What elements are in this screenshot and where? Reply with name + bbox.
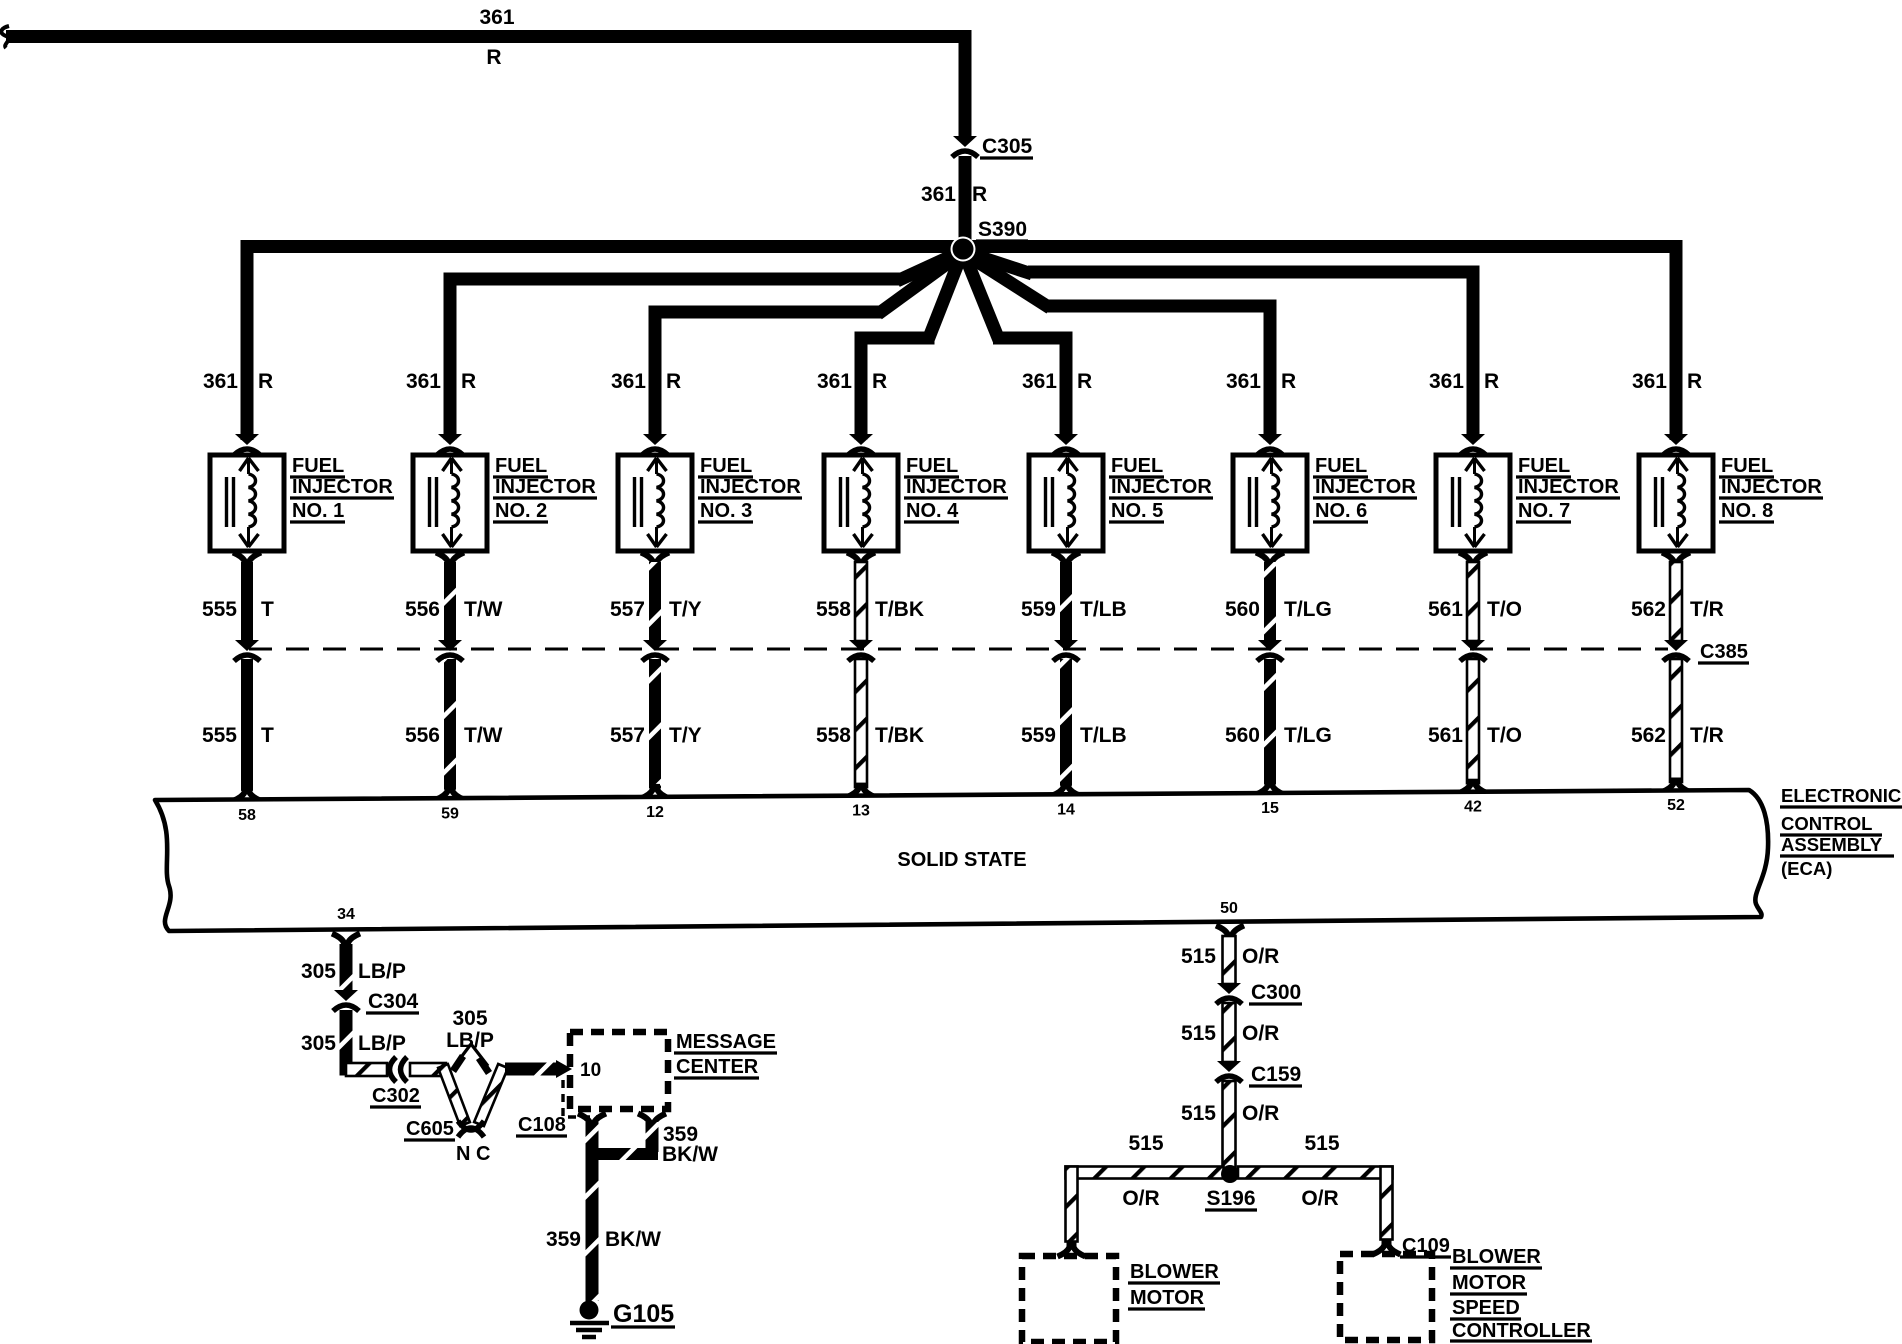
connector at top of fuel injector no. 8: [1663, 434, 1689, 455]
svg-text:58: 58: [238, 807, 256, 824]
wire 361 branch to injector 4: [855, 256, 962, 440]
svg-text:FUEL: FUEL: [1315, 455, 1367, 477]
fuel injector no. 3: [618, 455, 692, 551]
connector C385 pin for wire 562: [1663, 640, 1689, 661]
svg-text:FUEL: FUEL: [1721, 455, 1773, 477]
svg-text:NO. 8: NO. 8: [1721, 500, 1773, 522]
svg-text:FUEL: FUEL: [292, 455, 344, 477]
fishtail connector below fuel injector no. 1: [233, 553, 261, 568]
ECA pin 14: [1057, 801, 1075, 818]
svg-text:562: 562: [1631, 598, 1666, 621]
connector C109: [1373, 1235, 1452, 1257]
ECA pin 58: [238, 807, 256, 824]
wire 559 T/LB upper segment: [1021, 562, 1127, 641]
svg-text:CENTER: CENTER: [676, 1056, 759, 1078]
wire 558 T/BK lower segment to ECA pin 13: [816, 659, 924, 797]
svg-text:NO. 7: NO. 7: [1518, 500, 1570, 522]
connector C385 pin for wire 560: [1257, 640, 1283, 661]
wire 562 T/R lower segment to ECA pin 52: [1631, 659, 1724, 792]
svg-text:515: 515: [1181, 945, 1216, 968]
label FUEL INJECTOR NO. 1: [290, 455, 394, 522]
wire 361 R between C305 and S390: [921, 156, 987, 241]
svg-text:T: T: [261, 598, 274, 621]
label 305 LB/P pointer: [446, 1007, 494, 1075]
connector C159: [1216, 1061, 1302, 1086]
svg-text:FUEL: FUEL: [700, 455, 752, 477]
svg-text:T/LB: T/LB: [1080, 724, 1127, 747]
svg-text:12: 12: [646, 804, 664, 821]
fuel injector no. 5: [1029, 455, 1103, 551]
wire 515 O/R from C159 to splice S196: [1181, 1081, 1279, 1168]
fishtail connector below fuel injector no. 8: [1662, 553, 1690, 568]
connector C385 pin for wire 556: [437, 640, 463, 661]
wire 305 horizontal run to C302: [346, 1063, 387, 1076]
fishtail connector below fuel injector no. 2: [436, 553, 464, 568]
svg-text:INJECTOR: INJECTOR: [292, 476, 393, 498]
message center box: [570, 1032, 668, 1109]
label 361 R branch wire injector 6: [1226, 370, 1296, 393]
connector C385 pin for wire 557: [642, 640, 668, 661]
svg-text:515: 515: [1181, 1102, 1216, 1125]
svg-text:MOTOR: MOTOR: [1130, 1287, 1205, 1309]
ECA pin 12: [646, 804, 664, 821]
svg-text:T/LG: T/LG: [1284, 598, 1332, 621]
svg-text:O/R: O/R: [1242, 1022, 1279, 1045]
blower motor box: [1022, 1256, 1116, 1342]
connector C302: [370, 1057, 421, 1107]
svg-text:305: 305: [301, 960, 336, 983]
svg-text:T/Y: T/Y: [669, 598, 702, 621]
svg-text:361: 361: [611, 370, 646, 393]
svg-text:361: 361: [817, 370, 852, 393]
wire 557 T/Y lower segment to ECA pin 12: [610, 659, 702, 798]
svg-text:C159: C159: [1251, 1063, 1301, 1086]
svg-text:FUEL: FUEL: [1111, 455, 1163, 477]
label FUEL INJECTOR NO. 8: [1719, 455, 1823, 522]
svg-text:R: R: [1077, 370, 1092, 393]
svg-text:S196: S196: [1206, 1187, 1255, 1210]
svg-text:C305: C305: [982, 135, 1033, 158]
svg-text:359: 359: [546, 1228, 581, 1251]
svg-text:C300: C300: [1251, 981, 1301, 1004]
wire 558 T/BK upper segment: [816, 562, 924, 641]
fishtail connector below fuel injector no. 5: [1052, 553, 1080, 568]
svg-text:34: 34: [337, 906, 355, 923]
wire 515 O/R horizontal to blower motor: [1066, 1132, 1224, 1242]
svg-text:CONTROL: CONTROL: [1781, 813, 1872, 834]
connector C304: [333, 990, 419, 1013]
connector C385 pin for wire 561: [1460, 640, 1486, 661]
svg-text:557: 557: [610, 598, 645, 621]
svg-text:BLOWER: BLOWER: [1452, 1246, 1541, 1268]
fuel injector no. 7: [1436, 455, 1510, 551]
svg-text:C385: C385: [1700, 641, 1748, 663]
svg-text:LB/P: LB/P: [358, 1032, 406, 1055]
svg-text:FUEL: FUEL: [906, 455, 958, 477]
wire 556 T/W upper segment: [405, 562, 503, 641]
label 361 R branch wire injector 4: [817, 370, 887, 393]
svg-text:LB/P: LB/P: [358, 960, 406, 983]
svg-text:T/R: T/R: [1690, 598, 1724, 621]
svg-text:557: 557: [610, 724, 645, 747]
svg-text:15: 15: [1261, 800, 1279, 817]
svg-text:FUEL: FUEL: [1518, 455, 1570, 477]
svg-text:515: 515: [1304, 1132, 1339, 1155]
wire 361 feed from left (R): [1, 26, 971, 137]
fishtail connector below fuel injector no. 6: [1256, 553, 1284, 568]
svg-text:560: 560: [1225, 598, 1260, 621]
wire 361 branch to injector 6: [967, 255, 1277, 440]
svg-text:C302: C302: [372, 1085, 420, 1107]
svg-text:560: 560: [1225, 724, 1260, 747]
svg-text:R: R: [666, 370, 681, 393]
wire 561 T/O lower segment to ECA pin 42: [1428, 659, 1522, 793]
fuel injector no. 8: [1639, 455, 1713, 551]
connector at top of fuel injector no. 5: [1053, 434, 1079, 455]
electronic control assembly (ECA) box: [155, 790, 1768, 931]
wire 359 BK/W to ground G105: [546, 1122, 661, 1301]
svg-text:INJECTOR: INJECTOR: [1518, 476, 1619, 498]
svg-text:ASSEMBLY: ASSEMBLY: [1781, 834, 1883, 855]
wire 305 loop right leg: [474, 1064, 508, 1126]
svg-text:558: 558: [816, 598, 851, 621]
svg-text:BLOWER: BLOWER: [1130, 1261, 1219, 1283]
svg-text:T/BK: T/BK: [875, 724, 924, 747]
wire 305 from C302 to loop: [410, 1063, 446, 1076]
ECA pin 42: [1464, 798, 1482, 815]
fishtail at message center left pin: [578, 1114, 606, 1129]
svg-text:361: 361: [479, 6, 514, 29]
svg-text:FUEL: FUEL: [495, 455, 547, 477]
svg-text:C108: C108: [518, 1114, 566, 1136]
svg-text:361: 361: [921, 183, 956, 206]
connector C385 pin for wire 558: [848, 640, 874, 661]
fuel injector no. 1: [210, 455, 284, 551]
svg-text:515: 515: [1128, 1132, 1163, 1155]
ECA pin 59: [441, 806, 459, 823]
wire 559 T/LB lower segment to ECA pin 14: [1021, 659, 1127, 796]
fishtail connector below fuel injector no. 7: [1459, 553, 1487, 568]
fuel injector no. 2: [413, 455, 487, 551]
svg-text:LB/P: LB/P: [446, 1029, 494, 1052]
label 361 R branch wire injector 8: [1632, 370, 1702, 393]
svg-text:O/R: O/R: [1242, 1102, 1279, 1125]
svg-text:O/R: O/R: [1301, 1187, 1338, 1210]
ECA pin 13: [852, 803, 870, 820]
wire 562 T/R upper segment: [1631, 562, 1724, 641]
wire 555 T lower segment to ECA pin 58: [202, 659, 274, 801]
wire 305 LB/P from C304 to elbow: [301, 1010, 406, 1076]
svg-text:NO. 6: NO. 6: [1315, 500, 1367, 522]
svg-text:T: T: [261, 724, 274, 747]
fishtail connector below fuel injector no. 3: [641, 553, 669, 568]
connector C108 dashed boundary: [516, 1080, 601, 1136]
svg-text:SOLID STATE: SOLID STATE: [897, 849, 1026, 871]
svg-text:NO. 4: NO. 4: [906, 500, 959, 522]
svg-text:361: 361: [1632, 370, 1667, 393]
svg-text:T/LG: T/LG: [1284, 724, 1332, 747]
svg-text:MESSAGE: MESSAGE: [676, 1031, 776, 1053]
fuel injector no. 6: [1233, 455, 1307, 551]
connector at top of fuel injector no. 3: [642, 434, 668, 455]
svg-text:361: 361: [1226, 370, 1261, 393]
svg-text:ELECTRONIC: ELECTRONIC: [1781, 785, 1901, 806]
svg-text:NO. 5: NO. 5: [1111, 500, 1163, 522]
svg-text:13: 13: [852, 803, 870, 820]
connector at top of fuel injector no. 2: [437, 434, 463, 455]
connector at top of fuel injector no. 6: [1257, 434, 1283, 455]
svg-text:R: R: [1484, 370, 1499, 393]
svg-text:305: 305: [301, 1032, 336, 1055]
connector C300: [1216, 981, 1302, 1004]
svg-text:CONTROLLER: CONTROLLER: [1452, 1320, 1591, 1342]
wire 361 branch to injector 3: [649, 255, 960, 440]
label 361 on top feed wire: [479, 6, 514, 69]
svg-text:NO. 2: NO. 2: [495, 500, 547, 522]
connector at top of fuel injector no. 1: [234, 434, 260, 455]
blower motor speed controller box: [1340, 1254, 1432, 1340]
svg-text:561: 561: [1428, 724, 1463, 747]
svg-text:556: 556: [405, 598, 440, 621]
fuel injector no. 4: [824, 455, 898, 551]
svg-text:INJECTOR: INJECTOR: [1111, 476, 1212, 498]
svg-text:R: R: [1281, 370, 1296, 393]
svg-text:T/O: T/O: [1487, 598, 1522, 621]
svg-text:59: 59: [441, 806, 459, 823]
svg-text:INJECTOR: INJECTOR: [1721, 476, 1822, 498]
svg-text:N C: N C: [456, 1143, 490, 1165]
label FUEL INJECTOR NO. 5: [1109, 455, 1213, 522]
wire 515 O/R from C300 to C159: [1181, 1003, 1279, 1062]
label BLOWER MOTOR SPEED CONTROLLER: [1450, 1246, 1592, 1342]
label 361 R branch wire injector 1: [203, 370, 273, 393]
ECA pin 50: [1220, 900, 1238, 917]
svg-text:NO. 1: NO. 1: [292, 500, 344, 522]
label FUEL INJECTOR NO. 3: [698, 455, 802, 522]
label 361 R branch wire injector 7: [1429, 370, 1499, 393]
fishtail connector at ECA pin 50: [1216, 926, 1244, 941]
svg-text:555: 555: [202, 724, 237, 747]
svg-text:R: R: [486, 46, 501, 69]
svg-text:INJECTOR: INJECTOR: [495, 476, 596, 498]
svg-text:INJECTOR: INJECTOR: [700, 476, 801, 498]
svg-text:C605: C605: [406, 1118, 454, 1140]
wire 515 O/R horizontal to blower motor speed controller: [1238, 1132, 1393, 1240]
svg-text:T/W: T/W: [464, 598, 503, 621]
wire 557 T/Y upper segment: [610, 562, 702, 641]
ground G105: [570, 1300, 675, 1337]
label 361 R branch wire injector 5: [1022, 370, 1092, 393]
connector at top of fuel injector no. 7: [1460, 434, 1486, 455]
svg-text:O/R: O/R: [1122, 1187, 1159, 1210]
svg-text:559: 559: [1021, 724, 1056, 747]
svg-text:515: 515: [1181, 1022, 1216, 1045]
wire 361 branch to injector 7: [968, 253, 1480, 440]
wire 305 LB/P from pin 34 to C304: [301, 944, 406, 991]
connector C305: [952, 135, 1033, 158]
label ELECTRONIC CONTROL ASSEMBLY (ECA): [1780, 785, 1902, 879]
wire 361 branch to injector 2: [444, 253, 959, 440]
label SOLID STATE: [897, 849, 1026, 871]
svg-text:T/Y: T/Y: [669, 724, 702, 747]
svg-text:361: 361: [1022, 370, 1057, 393]
svg-text:INJECTOR: INJECTOR: [906, 476, 1007, 498]
svg-text:10: 10: [580, 1060, 601, 1081]
label MESSAGE CENTER: [674, 1031, 777, 1078]
svg-text:T/LB: T/LB: [1080, 598, 1127, 621]
ECA pin 52: [1667, 797, 1685, 814]
svg-text:C304: C304: [368, 990, 419, 1013]
svg-text:556: 556: [405, 724, 440, 747]
svg-text:561: 561: [1428, 598, 1463, 621]
svg-text:BK/W: BK/W: [605, 1228, 661, 1251]
splice S390: [951, 218, 1029, 262]
svg-text:42: 42: [1464, 798, 1482, 815]
wire 560 T/LG upper segment: [1225, 562, 1332, 641]
wire 561 T/O upper segment: [1428, 562, 1522, 641]
svg-text:SPEED: SPEED: [1452, 1297, 1520, 1319]
connector C385 dashed harness line: [249, 641, 1749, 663]
label FUEL INJECTOR NO. 2: [493, 455, 597, 522]
label FUEL INJECTOR NO. 6: [1313, 455, 1417, 522]
svg-text:T/W: T/W: [464, 724, 503, 747]
svg-text:559: 559: [1021, 598, 1056, 621]
svg-text:558: 558: [816, 724, 851, 747]
fishtail connector below fuel injector no. 4: [847, 553, 875, 568]
svg-text:361: 361: [406, 370, 441, 393]
wire 555 T upper segment: [202, 562, 274, 641]
svg-text:S390: S390: [978, 218, 1027, 241]
svg-text:R: R: [872, 370, 887, 393]
wire 305 from loop to message center: [505, 1060, 572, 1078]
svg-text:NO. 3: NO. 3: [700, 500, 752, 522]
svg-text:T/O: T/O: [1487, 724, 1522, 747]
fishtail connector at ECA pin 34: [332, 934, 360, 949]
svg-text:562: 562: [1631, 724, 1666, 747]
svg-text:R: R: [258, 370, 273, 393]
wire 560 T/LG lower segment to ECA pin 15: [1225, 659, 1332, 795]
wire 361 branch to injector 5: [965, 256, 1073, 440]
svg-text:361: 361: [203, 370, 238, 393]
svg-text:BK/W: BK/W: [662, 1143, 718, 1166]
svg-text:R: R: [972, 183, 987, 206]
wire 556 T/W lower segment to ECA pin 59: [405, 659, 503, 800]
svg-text:361: 361: [1429, 370, 1464, 393]
label 361 R branch wire injector 3: [611, 370, 681, 393]
wire 515 O/R from pin 50 to C300: [1181, 936, 1279, 984]
svg-text:T/BK: T/BK: [875, 598, 924, 621]
wire 305 loop left leg: [438, 1064, 470, 1126]
svg-text:14: 14: [1057, 801, 1075, 818]
label 361 R branch wire injector 2: [406, 370, 476, 393]
svg-text:52: 52: [1667, 797, 1685, 814]
ECA pin 34: [337, 906, 355, 923]
svg-text:R: R: [1687, 370, 1702, 393]
label FUEL INJECTOR NO. 7: [1516, 455, 1620, 522]
svg-text:G105: G105: [613, 1300, 674, 1328]
fishtail at blower motor: [1058, 1242, 1086, 1257]
connector C385 pin for wire 555: [234, 640, 260, 661]
label FUEL INJECTOR NO. 4: [904, 455, 1008, 522]
svg-text:O/R: O/R: [1242, 945, 1279, 968]
connector C605 (N C): [404, 1118, 490, 1165]
label BLOWER MOTOR: [1128, 1261, 1220, 1309]
wire 359 BK/W right pin jumper: [598, 1122, 718, 1166]
ECA pin 15: [1261, 800, 1279, 817]
svg-text:R: R: [461, 370, 476, 393]
svg-text:MOTOR: MOTOR: [1452, 1272, 1527, 1294]
svg-text:T/R: T/R: [1690, 724, 1724, 747]
svg-text:305: 305: [452, 1007, 487, 1030]
svg-text:INJECTOR: INJECTOR: [1315, 476, 1416, 498]
connector C385 pin for wire 559: [1053, 640, 1079, 661]
splice S196: [1205, 1165, 1257, 1210]
svg-text:(ECA): (ECA): [1781, 858, 1832, 879]
connector at top of fuel injector no. 4: [848, 434, 874, 455]
wire 361 bus from splice S390 to injectors 1 and 8: [241, 240, 1683, 440]
svg-text:555: 555: [202, 598, 237, 621]
svg-text:50: 50: [1220, 900, 1238, 917]
fishtail at message center right pin: [638, 1114, 666, 1129]
